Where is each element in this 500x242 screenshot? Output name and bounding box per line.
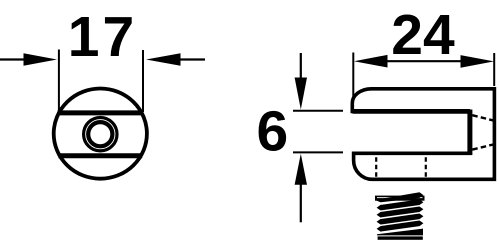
up arrowhead (6)	[295, 154, 307, 185]
svg-text:24: 24	[391, 3, 455, 67]
thread band partial	[377, 229, 423, 236]
clamp body circle (front view)	[54, 89, 147, 179]
slot upper chord line	[58, 110, 144, 115]
hub outer circle	[84, 118, 117, 151]
extension line top (6)	[293, 110, 343, 112]
hidden line vertical right (stud hole)	[425, 157, 427, 177]
hub inner circle	[88, 122, 112, 146]
dimension line (24)	[385, 60, 462, 62]
hidden line vertical left (stud hole)	[375, 157, 377, 177]
thread band	[377, 206, 424, 217]
thread band	[377, 199, 424, 210]
arrowhead left (24)	[354, 55, 388, 68]
dimension line right (17)	[180, 58, 205, 60]
extension line right (24)	[493, 53, 495, 86]
up arrow line (6)	[300, 184, 302, 222]
clamp outline (side view)	[352, 89, 494, 180]
thread band	[377, 214, 424, 225]
extension line left (17)	[58, 50, 60, 114]
arrowhead left (17)	[24, 53, 58, 66]
extension line left (24)	[352, 53, 354, 101]
slot lower chord line	[58, 153, 142, 158]
down arrow line (6)	[300, 53, 302, 80]
thread band	[377, 221, 424, 232]
arrowhead right (17)	[146, 53, 181, 66]
extension line right (17)	[142, 50, 144, 112]
slot top edge (thicker)	[353, 109, 470, 114]
extension line bottom (6)	[293, 151, 343, 153]
down arrowhead (6)	[295, 78, 307, 110]
dimension line left (17)	[0, 58, 26, 60]
hidden line diagonal bottom	[472, 145, 493, 150]
collar slit	[377, 196, 423, 199]
slot inner end vertical (thicker)	[467, 110, 472, 156]
hidden line diagonal top	[472, 115, 493, 120]
arrowhead right (24)	[461, 55, 495, 68]
threaded stud collar	[375, 196, 425, 201]
svg-text:17: 17	[68, 5, 137, 69]
stud bottom bar	[378, 236, 423, 239]
svg-text:6: 6	[256, 100, 288, 164]
thread band	[377, 192, 424, 202]
